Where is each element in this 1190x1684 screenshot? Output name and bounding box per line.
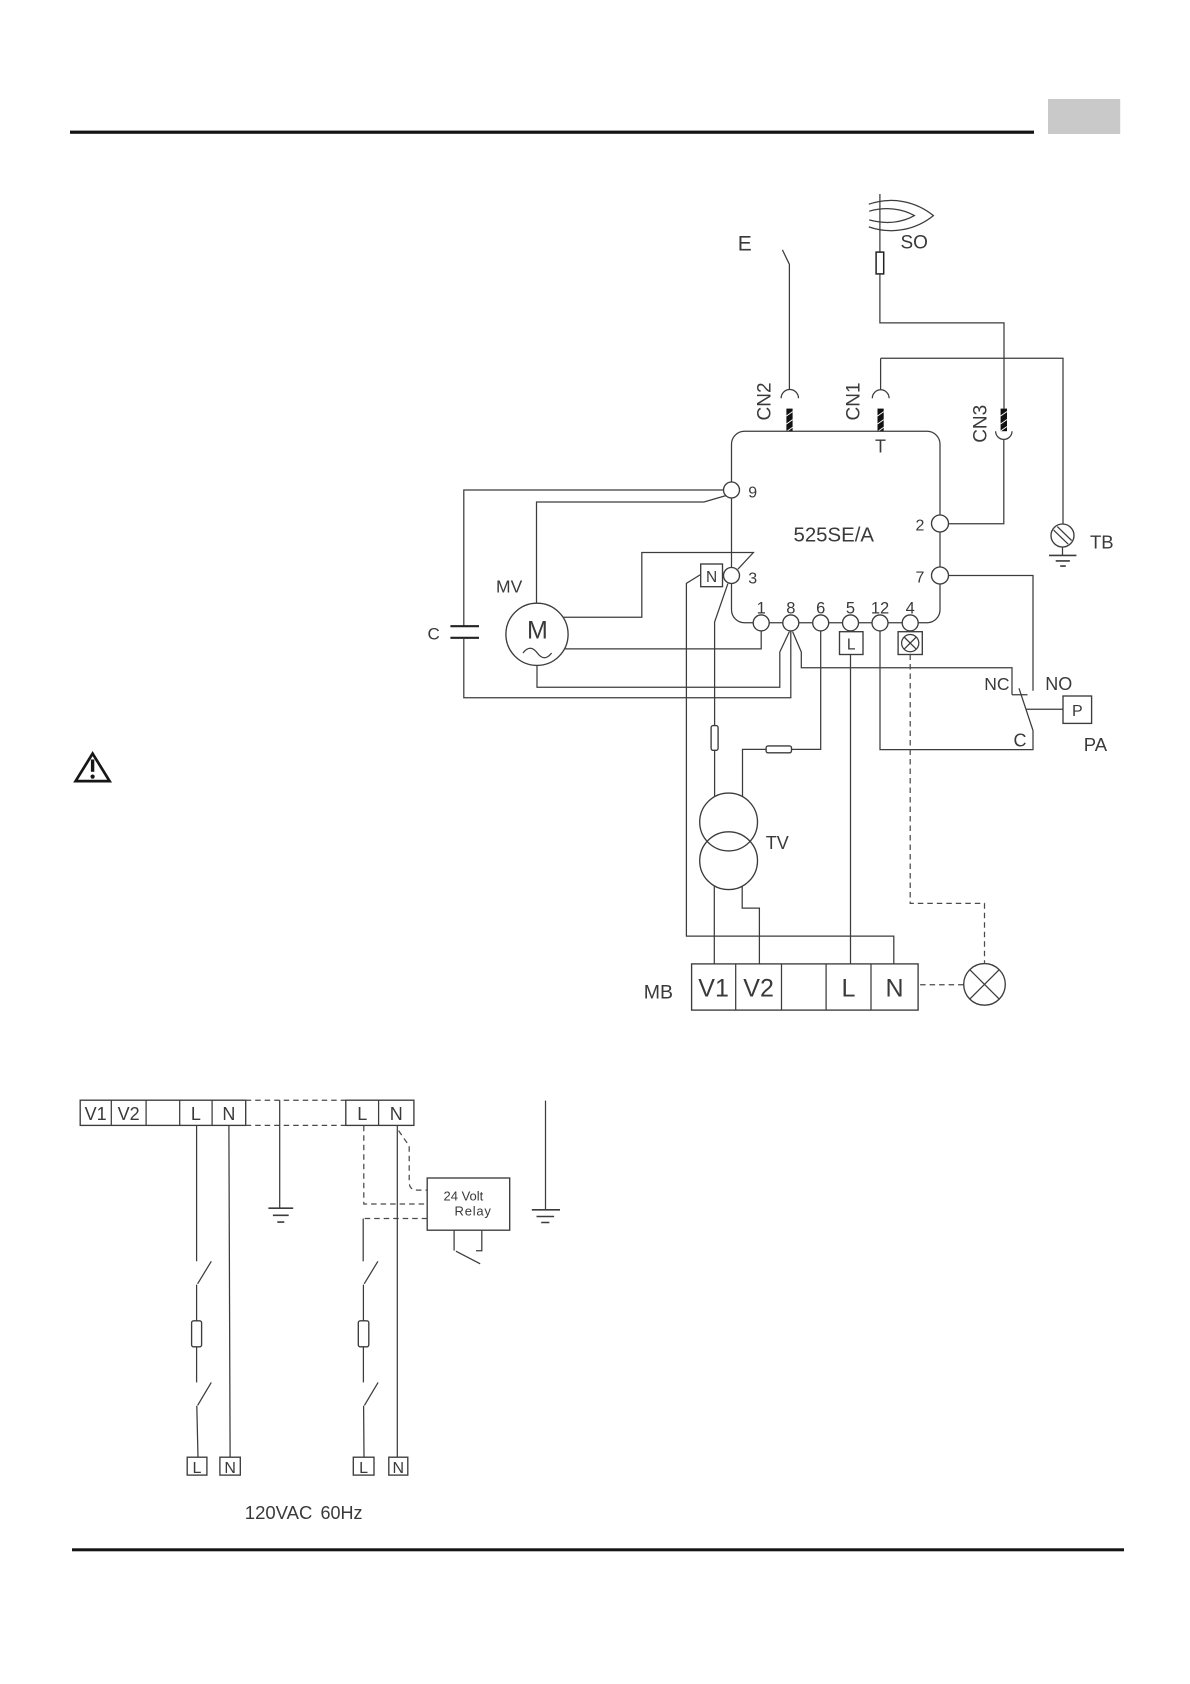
switch blade PA [1019, 688, 1033, 730]
capacitor C [450, 626, 479, 638]
lamp output box under pin 4 [898, 632, 922, 655]
strip cells L N right [346, 1100, 414, 1125]
pin 9 [724, 482, 740, 498]
ground under TB [1049, 547, 1076, 566]
wire switched L leg 4 [363, 1406, 365, 1457]
wire TV to fuse to pin 6 [743, 631, 821, 797]
svg-text:CN3: CN3 [971, 405, 992, 443]
L terminal box under pin 5 [840, 632, 864, 655]
svg-text:6: 6 [816, 599, 825, 617]
header rule [70, 131, 1034, 134]
wire TV secondary to MB V2 [742, 886, 759, 964]
connector CN3 socket arc [996, 431, 1012, 439]
svg-text:L: L [191, 1104, 201, 1124]
dashed wire N to relay [399, 1131, 428, 1191]
switch blade S1 [198, 1261, 212, 1284]
wire motor bottom to pin 8 [537, 632, 789, 688]
svg-text:E: E [738, 232, 752, 255]
P pressure switch box [1063, 696, 1092, 723]
ground wire mid [279, 1100, 281, 1208]
terminal L left [187, 1457, 207, 1477]
svg-text:120VAC: 120VAC [245, 1502, 313, 1523]
fuse right [358, 1321, 369, 1347]
svg-text:24 Volt: 24 Volt [444, 1188, 484, 1203]
fuse F2 [766, 746, 791, 753]
connector CN3 pin [1001, 409, 1007, 432]
wire blade to P box [1026, 708, 1063, 710]
svg-text:N: N [222, 1104, 235, 1124]
svg-text:2: 2 [916, 518, 925, 535]
terminal TB [1051, 524, 1074, 547]
terminal N left [220, 1457, 240, 1477]
pin 8 [783, 615, 799, 631]
svg-text:C: C [428, 624, 440, 643]
field wiring terminal strip [80, 1100, 246, 1125]
relay switch blade [456, 1251, 480, 1264]
wire pin 9 to motor top [537, 496, 726, 604]
svg-text:5: 5 [846, 599, 855, 617]
svg-text:Relay: Relay [455, 1204, 492, 1219]
svg-text:T: T [875, 436, 886, 456]
wire L down leg 4 [197, 1406, 198, 1457]
svg-text:N: N [393, 1460, 405, 1477]
svg-text:N: N [390, 1104, 403, 1124]
wire switched L leg 1 [362, 1219, 364, 1262]
wire N box to MB N [686, 575, 893, 964]
wire N down right [396, 1125, 398, 1457]
header gray box [1048, 99, 1120, 134]
svg-text:SO: SO [901, 233, 928, 254]
wire L down leg 3 [196, 1347, 198, 1383]
svg-text:12: 12 [871, 599, 889, 617]
wire capacitor bottom to pin 8 [464, 631, 791, 698]
warning triangle [76, 754, 110, 782]
dashed wire pin4 lamp to external lamp [910, 655, 984, 963]
wire SO to CN3 pin [880, 274, 1004, 409]
lamp [964, 964, 1006, 1006]
dashed wire relay to switched line [363, 1218, 427, 1220]
pin 1 [753, 615, 769, 631]
switch blade S2 [198, 1382, 212, 1405]
svg-text:60Hz: 60Hz [321, 1503, 363, 1523]
relay contact legs [454, 1230, 482, 1251]
wire switched L leg 2 [362, 1285, 364, 1321]
svg-text:CN1: CN1 [844, 382, 865, 420]
wire pin 12 to switch common [880, 631, 1033, 750]
wire TV secondary to MB V1 [713, 886, 715, 964]
relay box 24 Volt [427, 1178, 510, 1230]
wire CN1 node to TB [881, 358, 1063, 524]
svg-text:M: M [527, 617, 548, 645]
wire L down leg 1 [196, 1125, 198, 1261]
svg-text:L: L [847, 637, 856, 654]
terminal L right [353, 1457, 374, 1477]
wire motor to pin 1 [565, 631, 762, 649]
connector CN1 pin [878, 409, 884, 432]
pin 6 [813, 615, 829, 631]
svg-text:V1: V1 [698, 974, 729, 1002]
N terminal box [701, 564, 723, 587]
connector CN2 socket arc [781, 389, 798, 398]
svg-text:CN2: CN2 [755, 382, 776, 420]
connector CN2 pin [786, 409, 792, 432]
dashed wire L to relay [364, 1126, 427, 1204]
fuse F1 [711, 726, 718, 751]
svg-text:TV: TV [766, 833, 789, 853]
wire N down left [229, 1125, 230, 1457]
pin 7 [932, 567, 949, 584]
connector CN1 socket arc [872, 390, 889, 398]
wire SO probe top [879, 194, 881, 252]
svg-text:7: 7 [916, 570, 925, 587]
ground wire right [545, 1101, 547, 1210]
wire motor to pin 3 switch [564, 553, 754, 618]
svg-text:NC: NC [984, 674, 1009, 694]
ground symbol mid [268, 1208, 293, 1222]
svg-text:MV: MV [496, 577, 523, 597]
svg-text:PA: PA [1084, 734, 1108, 755]
wire CN1 up to node [880, 358, 882, 389]
svg-text:MB: MB [644, 982, 673, 1004]
wire L down leg 2 [196, 1285, 198, 1321]
flame sensor electrode [876, 252, 884, 274]
wire pin 8 to NC contact [793, 632, 1028, 695]
svg-text:V2: V2 [118, 1104, 140, 1124]
control box 525SE/A [732, 431, 941, 623]
dashed strip continuation [246, 1100, 346, 1125]
terminal N right [389, 1457, 408, 1477]
wire capacitor top to pin 9 [464, 490, 724, 626]
pin 4 [902, 615, 918, 631]
svg-text:NO: NO [1045, 674, 1072, 694]
svg-text:V2: V2 [743, 974, 774, 1002]
transformer TV [700, 793, 758, 890]
pin 3 [724, 568, 740, 584]
svg-text:1: 1 [757, 599, 766, 617]
ground symbol right [532, 1210, 560, 1223]
footer rule [72, 1548, 1124, 1551]
svg-text:4: 4 [906, 599, 915, 617]
svg-text:L: L [842, 974, 856, 1002]
flame symbol SO [869, 200, 934, 230]
motor MV [506, 603, 568, 665]
switch blade S3 [364, 1261, 378, 1284]
wire pin 3 to fuse to TV [715, 584, 728, 797]
svg-text:P: P [1072, 703, 1083, 720]
wire E to CN2 [782, 250, 789, 390]
wire pin 7 to NO contact [949, 576, 1034, 691]
svg-text:9: 9 [748, 484, 757, 501]
switch blade S4 [364, 1382, 378, 1405]
pin 2 [932, 515, 949, 532]
pin 12 [872, 615, 888, 631]
svg-text:L: L [357, 1104, 367, 1124]
wire switched L leg 3 [362, 1347, 364, 1383]
svg-text:L: L [359, 1460, 368, 1477]
svg-text:8: 8 [786, 599, 795, 617]
wire L box to MB L [850, 655, 852, 964]
svg-text:N: N [706, 569, 717, 586]
dashed wire lamp to MB N [918, 984, 963, 986]
svg-text:L: L [193, 1460, 202, 1477]
svg-text:N: N [885, 974, 903, 1002]
svg-text:TB: TB [1090, 532, 1114, 553]
svg-text:N: N [224, 1460, 236, 1477]
pin 5 [843, 615, 859, 631]
svg-text:525SE/A: 525SE/A [794, 524, 875, 546]
terminal strip MB [692, 964, 919, 1010]
svg-text:3: 3 [748, 570, 757, 587]
svg-text:C: C [1014, 730, 1027, 750]
fuse left [192, 1321, 202, 1347]
wire CN3 to pin 2 [948, 439, 1004, 523]
svg-text:V1: V1 [85, 1104, 107, 1124]
